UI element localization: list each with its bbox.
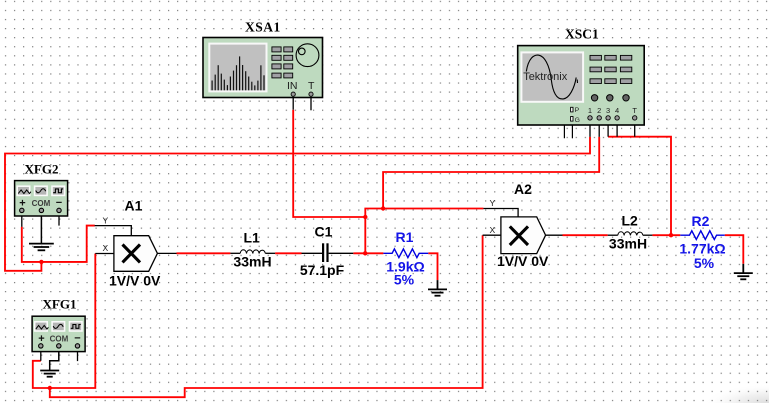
ground at R2 bbox=[734, 264, 753, 280]
svg-text:X: X bbox=[490, 225, 496, 235]
XSC1 knob 3 bbox=[623, 95, 629, 101]
XSC1 pins 1-4,T bbox=[588, 116, 637, 120]
svg-text:33mH: 33mH bbox=[233, 254, 271, 270]
XFG1 wave buttons bbox=[35, 322, 82, 331]
function generator XFG1 bbox=[32, 296, 85, 361]
XFG2 - pin bbox=[57, 208, 61, 212]
XFG2 square icon bbox=[53, 189, 63, 193]
wire A1 output to L1 bbox=[177, 252, 231, 254]
XSA1 body bbox=[203, 38, 323, 98]
svg-text:R1: R1 bbox=[396, 229, 414, 245]
R1 body zigzag bbox=[383, 249, 428, 258]
A1 multiply X glyph bbox=[123, 245, 141, 263]
XFG1 - pin stub bbox=[77, 346, 79, 361]
ground at XFG2 COM bbox=[29, 214, 54, 251]
svg-text:XSA1: XSA1 bbox=[245, 20, 281, 35]
R2 body zigzag bbox=[680, 231, 724, 240]
svg-text:5%: 5% bbox=[394, 272, 415, 288]
function generator XFG2 bbox=[15, 161, 68, 227]
A2 X pin stub bbox=[483, 234, 501, 236]
svg-text:Y: Y bbox=[490, 198, 496, 208]
A2 multiply X glyph bbox=[510, 226, 528, 245]
XSA1 T pin bbox=[309, 92, 313, 96]
svg-text:57.1pF: 57.1pF bbox=[300, 262, 345, 278]
svg-text:COM: COM bbox=[32, 199, 51, 208]
XFG2 body bbox=[15, 181, 68, 216]
svg-text:X: X bbox=[103, 243, 109, 253]
wire L1 to C1 bbox=[275, 252, 301, 254]
svg-text:1V/V 0V: 1V/V 0V bbox=[109, 273, 161, 289]
svg-text:XFG1: XFG1 bbox=[43, 296, 77, 311]
svg-text:XSC1: XSC1 bbox=[565, 27, 599, 42]
XSA1 knob marker bbox=[299, 48, 306, 55]
svg-text:R2: R2 bbox=[692, 213, 710, 229]
A1 X pin stub bbox=[95, 253, 114, 255]
L2 coil bbox=[618, 232, 643, 236]
XFG1 - pin bbox=[75, 344, 79, 348]
multiplier A2 bbox=[483, 181, 563, 269]
XSA1 IN pin bbox=[291, 92, 295, 96]
A2 body bbox=[501, 217, 546, 254]
svg-text:−: − bbox=[74, 332, 80, 344]
wire A2 output to L2 bbox=[563, 234, 608, 236]
svg-text:+: + bbox=[19, 197, 25, 209]
junction node L2/R2 bbox=[669, 233, 673, 237]
junction node at XFG1 + bbox=[48, 386, 52, 390]
XSA1 knob bbox=[296, 44, 319, 67]
L1 right stub bbox=[265, 252, 275, 254]
XFG2 + pin stub bbox=[21, 210, 23, 226]
svg-text:P: P bbox=[575, 107, 580, 114]
XSC1 screen bbox=[521, 52, 583, 101]
svg-text:1: 1 bbox=[588, 106, 592, 115]
svg-text:33mH: 33mH bbox=[609, 236, 647, 252]
svg-text:XFG2: XFG2 bbox=[25, 161, 59, 176]
XFG1 + pin stub bbox=[40, 346, 42, 361]
XFG2 - pin stub bbox=[58, 210, 60, 225]
XFG2 wave buttons bbox=[17, 186, 64, 195]
ground at XFG1 COM bbox=[40, 348, 59, 377]
svg-text:COM: COM bbox=[50, 334, 69, 343]
wire node A up and right to A2 Y bbox=[365, 209, 483, 218]
wire XFG2(+) net to XSC1 pin1: left vertical + long horizontal at y=153.5 bbox=[5, 137, 590, 271]
wire node A down to main node bbox=[364, 217, 366, 253]
svg-text:2: 2 bbox=[597, 106, 601, 115]
oscilloscope XSC1 bbox=[518, 27, 645, 139]
svg-text:1V/V 0V: 1V/V 0V bbox=[497, 253, 549, 269]
XSC1 buttons bbox=[590, 55, 632, 83]
XSC1 knob 1 bbox=[591, 95, 597, 101]
junction node at XFG2 + bbox=[39, 260, 43, 264]
C1 plate left bbox=[322, 243, 324, 262]
XSC1 knob 2 bbox=[607, 95, 613, 101]
XSC1 pin number labels bbox=[588, 106, 637, 115]
XSA1 spectrum bars bbox=[212, 56, 264, 90]
junction node B (A2 Y wire) bbox=[381, 206, 385, 210]
XSA1 buttons bbox=[272, 47, 293, 78]
svg-text:T: T bbox=[632, 106, 637, 115]
wire XFG1 + pin to A1 X input bbox=[33, 254, 96, 389]
XSC1 P pin box bbox=[571, 107, 573, 112]
wire L2 to R2 bbox=[652, 234, 680, 236]
XSA1 T pin stub bbox=[310, 94, 312, 110]
svg-text:A1: A1 bbox=[125, 198, 143, 214]
XSC1 G pin box bbox=[571, 117, 573, 122]
L1 coil bbox=[240, 250, 265, 254]
XFG1 sine icon bbox=[53, 324, 63, 328]
XFG1 square icon bbox=[71, 325, 81, 329]
capacitor C1 bbox=[300, 224, 353, 279]
resistor R2 bbox=[679, 213, 725, 271]
wire XFG2 + pin down, right to node, up to A1 Y bbox=[22, 226, 95, 262]
XSC1 body bbox=[518, 46, 645, 125]
junction node main row (C1/R1) bbox=[363, 251, 367, 255]
wire XSC1 pins 3-4-T to L2/R2 node bbox=[608, 137, 671, 236]
wire node B up to XSC1 pin2 bbox=[383, 137, 599, 209]
XFG1 + pin bbox=[39, 344, 43, 348]
L2 right stub bbox=[643, 234, 653, 236]
XFG2 COM pin bbox=[39, 208, 43, 212]
XFG1 body bbox=[32, 316, 85, 351]
L1 left stub bbox=[230, 252, 240, 254]
A1 body bbox=[114, 236, 157, 272]
C1 right stub bbox=[329, 252, 354, 254]
svg-text:4: 4 bbox=[615, 106, 619, 115]
svg-text:+: + bbox=[38, 333, 44, 345]
svg-text:A2: A2 bbox=[514, 181, 532, 197]
svg-text:IN: IN bbox=[287, 80, 298, 92]
svg-text:L1: L1 bbox=[244, 230, 261, 246]
svg-text:5%: 5% bbox=[694, 255, 715, 271]
svg-text:L2: L2 bbox=[622, 213, 639, 229]
XSC1 G pin stub bbox=[571, 121, 573, 138]
svg-text:3: 3 bbox=[606, 106, 610, 115]
multiplier A1 bbox=[95, 198, 177, 289]
C1 plate right bbox=[326, 243, 328, 262]
A1 output pin stub bbox=[157, 252, 176, 254]
scrollbar corner shade bbox=[703, 384, 769, 403]
XFG2 sine icon bbox=[36, 189, 46, 193]
wire XSA1 IN down to node A bbox=[293, 110, 365, 217]
XSC1 pin stubs 1-4,T bbox=[590, 118, 635, 137]
svg-text:G: G bbox=[575, 117, 580, 124]
svg-text:Tektronix: Tektronix bbox=[523, 71, 568, 83]
XFG2 triangle icon bbox=[18, 190, 31, 194]
XSA1 screen bbox=[209, 44, 266, 92]
inductor L2 bbox=[608, 213, 653, 252]
svg-text:T: T bbox=[308, 80, 315, 92]
XSA1 IN pin stub bbox=[292, 94, 294, 110]
wire R2 right to ground bbox=[725, 235, 744, 264]
C1 left stub bbox=[302, 252, 323, 254]
XFG2 + pin bbox=[20, 208, 24, 212]
A2 output pin stub bbox=[546, 234, 563, 236]
ground at R1 bbox=[428, 280, 447, 296]
junction node A (IN wire) bbox=[363, 215, 367, 219]
wire R1 right to ground bbox=[428, 253, 437, 280]
wire C1 to node to R1 bbox=[353, 252, 383, 254]
inductor L1 bbox=[230, 230, 275, 270]
L2 left stub bbox=[608, 234, 618, 236]
spectrum analyzer XSA1 bbox=[203, 20, 323, 111]
XFG1 triangle icon bbox=[36, 326, 49, 330]
XFG1 COM pin bbox=[57, 344, 61, 348]
svg-text:C1: C1 bbox=[315, 224, 333, 240]
svg-text:Y: Y bbox=[103, 216, 109, 226]
XSC1 P pin stub bbox=[564, 110, 570, 138]
XSC1 sine trace bbox=[526, 55, 577, 99]
resistor R1 bbox=[383, 229, 428, 288]
svg-text:−: − bbox=[56, 197, 62, 209]
wire bottom run from node to A2 X input bbox=[50, 235, 483, 397]
A1 Y pin stub bbox=[95, 226, 132, 236]
A2 Y pin stub bbox=[483, 209, 518, 217]
